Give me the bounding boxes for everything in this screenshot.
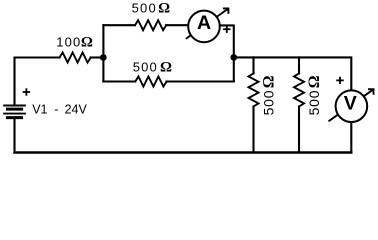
voltmeter arrow	[329, 89, 374, 121]
voltmeter plus sign	[336, 77, 343, 84]
wire node A vertical	[102, 25, 104, 81]
node A junction dot	[100, 54, 107, 61]
battery plus sign	[23, 88, 30, 95]
svg-text:500Ω: 500Ω	[261, 75, 278, 115]
resistor R1 100ohm zigzag	[60, 53, 91, 63]
wire R2 to ammeter	[166, 24, 188, 26]
resistor R4 top lead	[252, 57, 254, 73]
battery V1 plate long top	[4, 105, 25, 107]
wire R3 to node B	[167, 80, 234, 82]
svg-text:500Ω: 500Ω	[132, 1, 171, 17]
node B junction dot	[230, 54, 237, 61]
ammeter arrow	[186, 8, 229, 39]
wire left vertical bottom (battery - lead)	[13, 119, 15, 152]
wire R1 to node A	[91, 56, 104, 58]
wire left vertical top (battery + lead)	[15, 58, 60, 105]
resistor R4 bottom lead	[252, 107, 254, 153]
resistor R2 500ohm top zigzag	[135, 20, 166, 30]
wire node B to voltmeter top	[234, 57, 351, 90]
svg-text:500Ω: 500Ω	[133, 60, 172, 76]
svg-text:500Ω: 500Ω	[306, 75, 323, 115]
svg-text:A: A	[197, 12, 211, 34]
wire ammeter out to node B	[220, 25, 234, 81]
ammeter U1 circle	[188, 11, 220, 43]
wire voltmeter bottom lead	[350, 122, 352, 153]
battery V1 plate short upper	[8, 108, 22, 111]
svg-text:V: V	[344, 93, 357, 115]
voltmeter U2 circle	[336, 90, 368, 122]
wire top branch left	[103, 24, 135, 26]
wire bottom rail	[15, 151, 352, 153]
resistor R5 top lead	[298, 57, 300, 73]
resistor R5 bottom lead	[298, 107, 300, 153]
wire lower branch left	[103, 80, 135, 82]
ammeter plus sign	[223, 26, 230, 33]
battery V1 plate short bottom	[8, 116, 22, 119]
resistor R5 500ohm vertical zigzag	[294, 73, 304, 106]
resistor R4 500ohm vertical zigzag	[249, 73, 259, 106]
svg-text:100Ω: 100Ω	[56, 35, 93, 51]
resistor R3 500ohm lower zigzag	[135, 77, 166, 87]
battery V1 plate long lower	[4, 113, 25, 115]
